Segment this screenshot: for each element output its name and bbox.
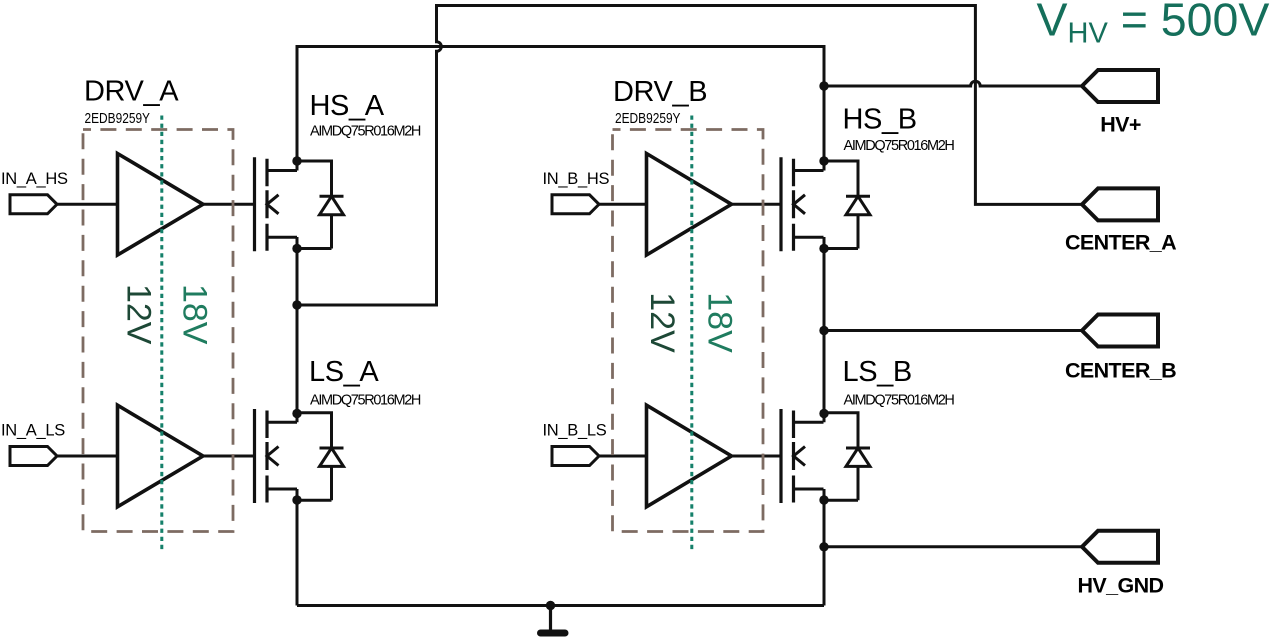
wire HV_GND bbox=[824, 545, 1082, 548]
wire input IN_B_HS to buffer bbox=[599, 203, 647, 206]
junction node leg A source HS bbox=[292, 244, 301, 253]
junction node ground tap bbox=[546, 601, 555, 610]
svg-text:2EDB9259Y: 2EDB9259Y bbox=[615, 111, 681, 127]
svg-text:DRV_B: DRV_B bbox=[613, 76, 707, 108]
svg-text:12V: 12V bbox=[643, 292, 681, 353]
driver block DRV_A dashed box bbox=[83, 130, 233, 532]
svg-text:HS_A: HS_A bbox=[310, 90, 385, 122]
buffer A high side bbox=[118, 154, 204, 256]
wire buffer B LS to gate bbox=[732, 455, 782, 458]
svg-text:AIMDQ75R016M2H: AIMDQ75R016M2H bbox=[844, 138, 955, 154]
svg-text:LS_A: LS_A bbox=[309, 356, 379, 388]
wire input IN_A_HS to buffer bbox=[57, 203, 118, 206]
connector IN_B_LS bbox=[552, 447, 599, 466]
svg-text:VHV = 500V: VHV = 500V bbox=[1037, 0, 1270, 50]
transistor HS_A bbox=[255, 157, 344, 251]
isolation dotted line DRV_B bbox=[690, 116, 693, 551]
junction node leg B HV_GND bbox=[819, 542, 828, 551]
svg-text:DRV_A: DRV_A bbox=[84, 76, 179, 108]
junction node leg B center bbox=[819, 326, 828, 335]
svg-text:HV+: HV+ bbox=[1100, 112, 1141, 136]
wire top rail from leg A center to CENTER_A with hops bbox=[297, 6, 1082, 306]
junction node leg A center bbox=[292, 300, 301, 309]
connector CENTER_B bbox=[1082, 315, 1158, 347]
svg-text:IN_B_HS: IN_B_HS bbox=[543, 170, 610, 188]
svg-text:18V: 18V bbox=[176, 284, 214, 345]
wire CENTER_B bbox=[824, 329, 1082, 332]
svg-text:IN_A_HS: IN_A_HS bbox=[1, 170, 68, 188]
junction node leg B drain HS bbox=[819, 156, 828, 165]
isolation dotted line DRV_A bbox=[160, 116, 163, 551]
junction node leg B source LS bbox=[819, 495, 828, 504]
svg-text:CENTER_A: CENTER_A bbox=[1065, 230, 1176, 254]
svg-text:HS_B: HS_B bbox=[843, 103, 917, 135]
wire buffer A HS to gate bbox=[203, 203, 255, 206]
connector HV+ bbox=[1082, 70, 1158, 102]
connector CENTER_A bbox=[1082, 188, 1158, 220]
junction node leg A source LS bbox=[292, 495, 301, 504]
driver block DRV_B dashed box bbox=[613, 130, 764, 532]
wire leg A bottom bbox=[296, 489, 299, 606]
svg-text:IN_A_LS: IN_A_LS bbox=[1, 422, 65, 440]
svg-text:12V: 12V bbox=[119, 284, 157, 345]
svg-text:HV_GND: HV_GND bbox=[1077, 573, 1163, 597]
connector IN_A_LS bbox=[10, 447, 57, 466]
wire HV+ with hop bbox=[824, 81, 1082, 86]
wire leg B bottom bbox=[823, 489, 826, 606]
svg-text:IN_B_LS: IN_B_LS bbox=[543, 422, 607, 440]
junction node leg B HV+ bbox=[819, 81, 828, 90]
buffer B high side bbox=[647, 154, 732, 256]
junction node leg B source HS bbox=[819, 244, 828, 253]
wire leg B middle bbox=[823, 237, 826, 422]
wire bottom ground bus bbox=[297, 604, 824, 607]
transistor LS_B bbox=[781, 409, 870, 503]
svg-text:AIMDQ75R016M2H: AIMDQ75R016M2H bbox=[844, 392, 955, 408]
transistor HS_B bbox=[781, 157, 870, 251]
wire buffer B HS to gate bbox=[732, 203, 782, 206]
svg-text:18V: 18V bbox=[700, 292, 738, 353]
svg-text:AIMDQ75R016M2H: AIMDQ75R016M2H bbox=[310, 392, 421, 408]
svg-text:CENTER_B: CENTER_B bbox=[1065, 359, 1176, 383]
connector HV_GND bbox=[1082, 531, 1158, 563]
svg-text:AIMDQ75R016M2H: AIMDQ75R016M2H bbox=[310, 124, 421, 140]
junction node leg A drain HS bbox=[292, 156, 301, 165]
ground bbox=[549, 606, 552, 631]
wire HV rail tying HS_A and HS_B drains bbox=[297, 47, 824, 171]
wire leg A middle bbox=[296, 237, 299, 422]
wire input IN_B_LS to buffer bbox=[599, 455, 647, 458]
buffer A low side bbox=[118, 405, 204, 507]
junction node leg A drain LS bbox=[292, 409, 301, 418]
transistor LS_A bbox=[255, 409, 344, 503]
svg-text:2EDB9259Y: 2EDB9259Y bbox=[85, 111, 151, 127]
junction node leg B drain LS bbox=[819, 409, 828, 418]
connector IN_B_HS bbox=[552, 195, 599, 214]
wire input IN_A_LS to buffer bbox=[57, 455, 118, 458]
svg-text:LS_B: LS_B bbox=[843, 356, 912, 388]
connector IN_A_HS bbox=[10, 195, 57, 214]
wire buffer A LS to gate bbox=[203, 455, 255, 458]
buffer B low side bbox=[647, 405, 732, 507]
